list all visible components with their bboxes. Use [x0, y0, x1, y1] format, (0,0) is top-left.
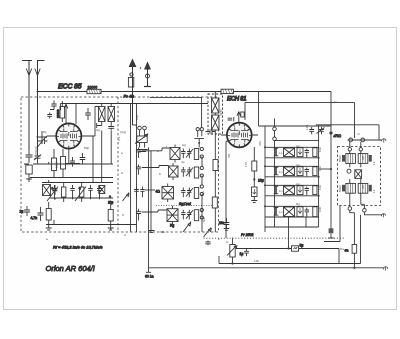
capacitor C10 [181, 167, 185, 177]
svg-text:1k: 1k [372, 161, 376, 165]
grounds [202, 231, 215, 233]
capacitor C8 [181, 149, 185, 159]
capacitor C3 4,7n [31, 207, 44, 221]
wire output vertical [354, 213, 360, 268]
FM dipole terminal 2 [140, 63, 151, 87]
capacitor C16 electrolytic [251, 187, 257, 202]
capacitor C14 [206, 129, 216, 133]
resistor R11 [252, 161, 257, 187]
svg-text:5μ: 5μ [300, 244, 304, 248]
IF stage row 2 [265, 166, 319, 177]
svg-text:10n: 10n [219, 221, 225, 225]
svg-text:5000: 5000 [338, 185, 342, 192]
wire bottom bus 1 [219, 256, 361, 264]
dial cord dotted line [204, 237, 346, 239]
resistor R14 [213, 160, 218, 171]
wire IF bottom [265, 217, 319, 249]
FM dipole terminal 1 [128, 60, 136, 126]
value labels [34, 100, 376, 263]
capacitor C18 [317, 127, 325, 134]
wire osc verticals [150, 97, 204, 232]
resistor R4 20000 [56, 101, 65, 122]
trimmer C13b [186, 210, 193, 220]
resistor R15 [352, 245, 357, 254]
oscillator coil L3 [169, 163, 179, 180]
IF stage row 3 [265, 185, 319, 196]
svg-text:1n: 1n [279, 189, 283, 193]
oscillator coil L4 double [156, 184, 174, 203]
input coil L1 [26, 150, 33, 179]
antenna AM 2 [35, 61, 45, 151]
svg-text:ECC 85: ECC 85 [58, 82, 83, 91]
svg-text:1μ: 1μ [240, 252, 244, 256]
resistor R8c [194, 188, 198, 199]
svg-text:a: a [46, 237, 48, 241]
output transformer T2 box [338, 147, 381, 206]
svg-text:1n: 1n [279, 210, 283, 214]
detector diode junction [329, 131, 332, 134]
resistor R8d [194, 210, 198, 221]
svg-text:1k: 1k [372, 189, 376, 193]
triode U1 ECC85 [56, 123, 81, 148]
wire links bottom left [148, 218, 226, 238]
svg-text:47k: 47k [258, 141, 262, 146]
svg-text:Rf = 452,2 kc/s és 10,7Mc/s: Rf = 452,2 kc/s és 10,7Mc/s [53, 244, 102, 249]
svg-text:30k: 30k [160, 230, 165, 234]
wire U1 anode arrow [64, 104, 68, 125]
wire osc links [131, 104, 152, 268]
svg-text:Ag: Ag [296, 182, 300, 186]
oscillator coil L2 [170, 145, 180, 163]
svg-text:a: a [157, 149, 159, 153]
svg-text:20000: 20000 [56, 109, 60, 118]
svg-text:3232: 3232 [219, 109, 223, 116]
wire U1 leads [47, 136, 95, 164]
wire gang vertical [136, 104, 138, 233]
svg-text:Ag: Ag [182, 143, 186, 147]
resistor R2 inline [221, 89, 234, 93]
wire bottom bus 2 [149, 267, 384, 269]
capacitor C24 electrolytic [328, 228, 334, 241]
pickup terminal line [348, 138, 387, 143]
resistor R6 [61, 149, 66, 178]
row2 caps left [136, 165, 169, 175]
junction dots IF [264, 146, 266, 148]
oscillator coil L5 double [167, 206, 178, 228]
svg-text:5000: 5000 [338, 155, 342, 162]
band switch row [42, 183, 114, 205]
trimmer C5 [38, 136, 48, 147]
svg-text:170: 170 [244, 162, 248, 167]
svg-text:л7kΩ: л7kΩ [333, 134, 342, 138]
svg-text:50k: 50k [202, 217, 206, 222]
wire top bus [37, 92, 332, 134]
dashed divider [117, 97, 119, 232]
svg-text:Ag: Ag [296, 163, 300, 167]
capacitor C1 [34, 150, 41, 164]
capacitor C21 [205, 241, 210, 246]
tuning arrow [204, 228, 212, 238]
IF stage row 4 [265, 206, 319, 217]
svg-text:10n: 10n [318, 147, 322, 152]
junction dots bottom [287, 247, 289, 249]
svg-text:Rg: Rg [296, 202, 300, 206]
row1 caps left [136, 148, 170, 158]
terminal dots [198, 142, 200, 144]
svg-text:13k: 13k [254, 259, 259, 263]
svg-text:10μ: 10μ [258, 179, 264, 183]
wire U2 cathode column [226, 141, 254, 218]
T2 winding W2 [342, 179, 372, 209]
capacitor C15 [219, 218, 229, 230]
wire AVC vertical [330, 133, 332, 232]
capacitor C2 2n [20, 206, 31, 216]
svg-text:100: 100 [318, 207, 322, 212]
svg-text:50p: 50p [84, 146, 89, 150]
capacitor C4 [47, 101, 56, 119]
T2 middle [347, 169, 362, 178]
resistor R8b [194, 167, 198, 178]
svg-text:(Ag): (Ag) [120, 130, 126, 134]
switch arrow S2 [183, 222, 191, 233]
svg-text:AZ: AZ [361, 185, 365, 189]
trimmer C13 [186, 188, 193, 198]
svg-text:Ha: Ha [340, 247, 344, 251]
capacitor C7 [70, 153, 85, 167]
svg-text:4Ω: 4Ω [227, 153, 231, 158]
switch contacts S1 [200, 147, 203, 219]
IF strip buses [273, 127, 277, 131]
svg-text:60 1a: 60 1a [145, 275, 154, 279]
svg-text:AZ: AZ [361, 156, 365, 160]
wire below T2 [324, 206, 354, 242]
resistor R1 11000 inline [87, 86, 101, 94]
resistor R3 [46, 202, 52, 230]
label 1a [145, 268, 154, 279]
trimmer C9 [186, 149, 193, 159]
resistor R5 [52, 149, 57, 178]
wire ratio det [316, 125, 379, 140]
svg-text:8p: 8p [43, 130, 47, 134]
output terminal line [364, 212, 381, 215]
U1 electrodes [57, 129, 82, 144]
svg-text:Fe: Fe [334, 100, 338, 104]
capacitor C6 [85, 108, 91, 120]
terminal circles T2 bottom [348, 207, 352, 211]
wire second bus [61, 102, 355, 138]
svg-text:11000: 11000 [88, 86, 98, 90]
svg-text:e: e [218, 237, 220, 241]
svg-text:n²: n² [357, 132, 360, 136]
svg-text:1500: 1500 [55, 161, 59, 168]
terminal hook 2 [384, 266, 388, 270]
wire left verticals [46, 162, 137, 230]
svg-text:d: d [124, 233, 126, 237]
svg-text:10n: 10n [318, 166, 322, 171]
resistor R7 [108, 203, 114, 231]
svg-text:1n: 1n [279, 151, 283, 155]
U2 electrodes [228, 128, 252, 143]
IF stage row 1 [265, 147, 319, 158]
svg-text:20000: 20000 [34, 146, 38, 155]
svg-text:σa: σa [345, 249, 349, 253]
svg-text:Rg: Rg [170, 224, 174, 228]
svg-text:Orion AR 604/I: Orion AR 604/I [46, 264, 95, 273]
junction dot A [253, 178, 255, 180]
capacitor C22 [244, 249, 249, 257]
resistor R10 [212, 197, 217, 208]
capacitor C23 coupling [292, 244, 304, 252]
capacitor C17 [309, 127, 314, 134]
dotted Gy line [156, 205, 215, 207]
trimmer C11 [186, 167, 193, 177]
volume pot P1 [227, 238, 243, 264]
svg-text:10n: 10n [318, 185, 322, 190]
T2 winding W1 [342, 148, 372, 168]
wire U1 anode up [61, 104, 99, 137]
capacitor C12 [181, 188, 185, 198]
svg-text:4Ω: 4Ω [156, 190, 161, 194]
FM IF transformer T0 [97, 104, 115, 131]
svg-text:ECH 81: ECH 81 [227, 97, 247, 103]
svg-text:Pr 250k: Pr 250k [241, 233, 254, 237]
resistor R8 [194, 149, 198, 160]
svg-text:2μ: 2μ [20, 210, 24, 214]
wire U2 leads [221, 112, 258, 135]
wire AF line [236, 249, 339, 264]
pentode U2 ECH81 [227, 123, 252, 148]
svg-text:125: 125 [305, 125, 309, 130]
svg-text:Gy,Cont: Gy,Cont [179, 202, 192, 206]
wire T1 column [214, 134, 216, 232]
svg-text:4p: 4p [181, 160, 185, 164]
wire to output box [350, 142, 361, 148]
svg-text:0,1: 0,1 [117, 136, 121, 141]
svg-text:Ag: Ag [296, 144, 300, 148]
wire row [24, 131, 113, 183]
IF transformer T1 [208, 92, 223, 135]
gang capacitor section [135, 126, 148, 151]
row3 caps left [134, 187, 155, 198]
switch arrow left [123, 193, 130, 202]
capacitor C12b [181, 210, 185, 220]
svg-text:Fo 4Ω: Fo 4Ω [124, 95, 135, 99]
wire grid U1 [37, 131, 48, 144]
svg-text:Ag: Ag [96, 128, 100, 132]
svg-text:12p: 12p [135, 115, 139, 120]
dashed tuner box [21, 97, 219, 232]
svg-text:4,7n: 4,7n [31, 216, 38, 220]
row4 caps left [136, 209, 167, 221]
svg-text:50k: 50k [201, 191, 205, 196]
svg-text:f: f [166, 145, 167, 149]
svg-text:1n: 1n [279, 170, 283, 174]
svg-text:a: a [121, 151, 123, 155]
antenna AM 1 [22, 61, 32, 151]
